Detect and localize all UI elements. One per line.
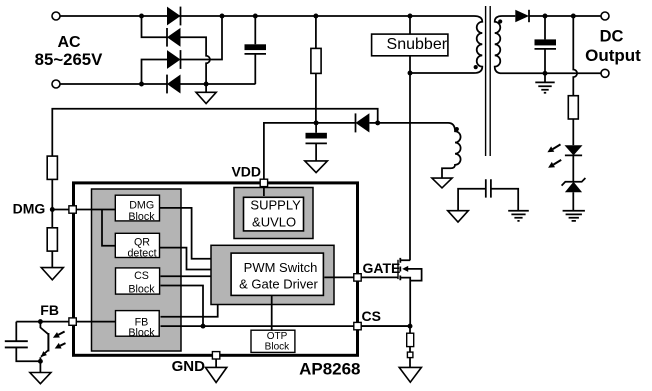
svg-text:PWM Switch: PWM Switch [244,260,318,275]
svg-text:Block: Block [265,342,290,353]
ground GND pin [215,359,217,367]
junction dot positive rail at output cap [543,14,548,19]
transformer T1 secondary winding [495,16,502,73]
wire D2 anode to negative node with hop [181,37,210,84]
ground Y-cap secondary side earth [508,211,529,221]
wire DMG node to block [52,209,116,211]
wire aux node to winding [378,122,448,124]
polarity dot primary [474,65,478,69]
diode D5 output rectifier [515,10,529,22]
LED D6 optocoupler [565,145,583,155]
resistor R4 sense lower [51,210,53,228]
junction dot VDD cap node [314,120,319,125]
diode D8 VDD rectifier [355,113,357,132]
svg-text:GATE: GATE [363,260,401,276]
resistor R1 startup [315,16,317,48]
svg-text:GND: GND [172,358,206,375]
svg-text:SUPPLY: SUPPLY [250,198,301,213]
block SUPPLY UVLO [244,197,304,231]
junction dot top rail at snubber [408,14,413,19]
wire QR branch [102,210,116,246]
wire CS block to CS pin riser [161,286,204,327]
diode D1 bridge [167,7,181,26]
left function panel [92,189,182,351]
wire PWM to OTP [271,295,273,330]
svg-text:DMG: DMG [13,201,46,217]
wire top rail [60,15,474,17]
svg-text:detect: detect [127,248,156,260]
junction dot negative rail at output cap [543,71,548,76]
block PWM switch gate driver [231,253,323,295]
junction dot positive rail at feedback tap [571,14,576,19]
svg-text:Block: Block [128,211,155,223]
wire secondary to rectifier [502,15,515,17]
wire aux sense line [52,109,377,156]
svg-text:CS: CS [134,270,149,282]
transformer T1 core [486,6,491,156]
wire negative rail [181,83,256,85]
capacitor C2 output [544,16,546,39]
pin GND [212,352,219,359]
svg-text:&UVLO: &UVLO [252,215,296,230]
svg-text:DMG: DMG [129,200,154,212]
ground CS resistor [399,367,421,382]
wire DMG pin to DMG block [75,209,116,211]
junction dot top rail at D3 riser [220,14,225,19]
pin GATE [354,274,361,281]
terminal J2 AC line bottom [52,80,60,88]
junction dot CS node [408,324,413,329]
svg-text:Snubber: Snubber [387,36,448,53]
wire AC1 to D2 cathode [142,16,168,37]
diode D4 bridge [166,75,168,94]
snubber block [409,16,411,34]
svg-text:85~265V: 85~265V [35,50,103,69]
wire LED to zener [572,155,574,182]
optocoupler light arrows receive [58,332,65,346]
junction dot primary bottom node [408,71,413,76]
wire drain riser [409,73,411,260]
svg-text:Block: Block [128,327,155,339]
ground secondary earth [535,73,554,93]
wire VDD net [264,123,356,179]
svg-text:Output: Output [585,46,641,65]
junction dot DMG node [50,207,55,212]
resistor R3 sense upper [47,156,57,179]
polarity dot aux [455,127,459,131]
wire feedback drop with hop [573,16,577,96]
wire CS pin row [361,325,410,327]
junction dot top rail at bulk cap [253,14,258,19]
junction dot CS riser on FB row [201,324,206,329]
wire D3 cathode to top rail [181,16,223,60]
capacitor C5 FB [16,322,40,362]
PWM panel [211,245,334,304]
capacitor C3 VDD [315,123,317,133]
ground bridge negative [205,84,207,92]
wire AC2 rail [60,83,167,85]
terminal J4 DC output minus [601,69,609,77]
capacitor C4 Y-cap [458,189,518,211]
block QR [115,233,159,257]
block DMG [115,195,159,221]
wire secondary positive rail [529,15,601,17]
junction dot bottom rail at bridge input [139,82,144,87]
svg-text:DC: DC [600,28,624,46]
resistor R2 feedback [568,96,578,119]
wire VDD pin to supply block [263,184,265,196]
capacitor C1 bulk [254,16,256,44]
transistor Q1 MOSFET gate wire [361,276,398,278]
pin CS [354,322,361,329]
ground zener earth [563,211,585,221]
wire FB block to PWM [161,288,232,316]
svg-text:CS: CS [362,308,381,324]
terminal J1 AC line top [52,12,60,20]
wire FB pin to block [16,321,116,323]
wire QR block to PWM [160,248,231,270]
ground VDD cap [305,161,328,173]
pin DMG [69,206,76,213]
terminal J3 DC output plus [601,12,609,20]
junction dot FB node [38,319,43,324]
optocoupler light arrows transmit [553,144,562,164]
wire DMG block to PWM [160,208,231,259]
transformer T1 aux winding [442,123,461,178]
ground aux winding [432,178,452,188]
wire CS block to PWM [161,275,232,277]
transistor Q1 MOSFET [397,260,399,279]
wire PWM to GATE pin [324,276,361,278]
junction dot top rail at bridge input [139,14,144,19]
ground DMG divider [41,268,63,280]
ground FB network [39,361,41,372]
op-amp U1 AP8268 outline [74,183,358,355]
svg-text:AC: AC [57,34,81,51]
transformer T1 primary winding [410,16,482,73]
ground Y-cap primary side [448,211,469,222]
pin VDD [260,179,267,186]
junction dot bridge negative node [204,82,209,87]
junction dot top rail at startup resistor [313,14,318,19]
svg-text:AP8268: AP8268 [299,360,360,379]
polarity dot secondary [498,19,502,23]
zener D7 [562,178,586,186]
block CS [116,268,160,294]
svg-text:FB: FB [40,302,59,318]
block FB [116,311,160,337]
junction dot aux node [375,120,380,125]
wire AC2 to D3 anode [142,60,168,85]
wire FB row to CS pin [161,325,411,327]
diode D3 bridge [167,50,181,69]
sense square [407,352,413,358]
supply panel [234,188,313,239]
wire secondary negative rail [502,72,601,74]
pin FB [69,318,76,325]
phototransistor Q2 optocoupler [40,322,48,362]
diode D2 bridge [166,28,168,47]
svg-text:VDD: VDD [231,163,261,179]
svg-text:& Gate Driver: & Gate Driver [239,276,318,291]
svg-text:Block: Block [128,284,155,296]
block OTP [251,330,295,352]
resistor R5 current sense [409,326,411,333]
junction dot FB emitter [38,359,43,364]
